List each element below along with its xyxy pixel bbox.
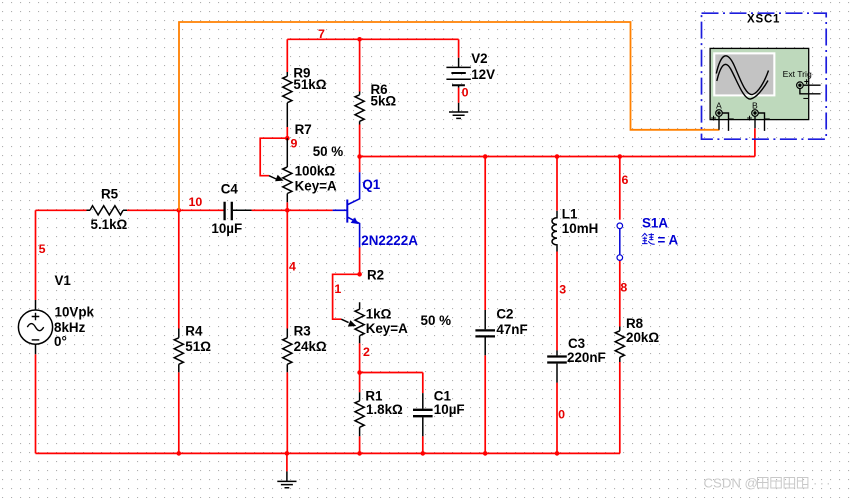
- svg-text:CSDN @: CSDN @: [704, 476, 758, 491]
- capacitor C1 leads: [422, 393, 424, 436]
- potentiometer R7 wiper arrow: [269, 176, 276, 179]
- svg-text:5: 5: [39, 242, 46, 256]
- svg-text:V1: V1: [55, 273, 72, 288]
- potentiometer R7 leads: [286, 138, 288, 202]
- wire R7 bottom to node10: [286, 202, 288, 210]
- svg-text:220nF: 220nF: [567, 350, 606, 365]
- svg-text:0°: 0°: [54, 334, 67, 349]
- svg-text:0: 0: [558, 408, 565, 422]
- svg-text:7: 7: [318, 27, 325, 41]
- node junction dot C2 top: [483, 154, 488, 159]
- oscilloscope A pin stubs: [719, 113, 729, 131]
- capacitor C2 plates: [475, 330, 495, 336]
- wire R9 top lead: [286, 39, 288, 72]
- svg-text:10mH: 10mH: [562, 221, 598, 236]
- wire R4 column bottom: [178, 372, 180, 453]
- node junction dot L1 top: [555, 154, 560, 159]
- svg-text:4: 4: [289, 260, 296, 274]
- ground symbol at bottom rail stem: [286, 471, 288, 481]
- wire R5 right to node10 to C4: [127, 209, 224, 211]
- node junction dot rail C3: [555, 451, 560, 456]
- wire Q1 collector red: [359, 157, 361, 173]
- svg-text:1kΩ: 1kΩ: [366, 307, 392, 322]
- transistor Q1 base lead: [333, 209, 348, 211]
- svg-text:10Vpk: 10Vpk: [55, 305, 95, 320]
- resistor R5 body: [90, 206, 123, 215]
- wire R2 wiper loop: [333, 274, 360, 319]
- capacitor C3 plates: [547, 357, 567, 363]
- transistor Q1 emitter lead: [348, 217, 360, 247]
- oscilloscope XSC1 Ext Trig terminal: [797, 82, 821, 94]
- resistor R6 body: [355, 95, 364, 122]
- wire R1 to C1 horizontal: [360, 372, 423, 374]
- svg-text:5.1kΩ: 5.1kΩ: [91, 217, 128, 232]
- label S1A key glyph (CJK jian): [642, 233, 655, 244]
- ground symbol at bottom rail bars: [277, 481, 296, 487]
- wire left rail vertical below V1: [35, 354, 37, 453]
- battery V2 top lead: [458, 58, 460, 68]
- svg-text:A: A: [716, 100, 722, 110]
- svg-text:−: −: [765, 114, 771, 125]
- svg-text:C4: C4: [221, 182, 239, 197]
- wire C2 column top: [484, 157, 486, 311]
- node junction dot node4: [285, 208, 290, 213]
- wire R6 bottom to node6: [359, 125, 361, 157]
- wire R2 bottom: [359, 343, 361, 372]
- svg-text:8: 8: [620, 281, 627, 295]
- wire node9 segment above R7: [286, 127, 288, 138]
- svg-text:2: 2: [363, 345, 370, 359]
- node junction dot node9: [285, 136, 290, 141]
- wire C1 top: [422, 373, 424, 394]
- svg-text:24kΩ: 24kΩ: [294, 339, 327, 354]
- node junction dot node7/R6: [357, 37, 362, 42]
- wire C4 right to node4 to Q1 base: [252, 209, 333, 211]
- source V1 circle: [18, 310, 52, 344]
- svg-text:V2: V2: [471, 51, 487, 66]
- svg-text:−: −: [729, 114, 735, 125]
- svg-text:C2: C2: [496, 307, 513, 322]
- oscilloscope XSC1 dashed selection box: [702, 13, 827, 139]
- oscilloscope XSC1 body: [710, 48, 809, 119]
- svg-text:R7: R7: [295, 122, 312, 137]
- svg-text:XSC1: XSC1: [747, 14, 780, 26]
- svg-text:+: +: [747, 113, 753, 124]
- battery V2 plates: [446, 67, 470, 79]
- svg-text:47nF: 47nF: [496, 322, 527, 337]
- svg-text:+: +: [711, 113, 717, 124]
- wire V2 mid stem red: [458, 88, 460, 103]
- svg-text:12V: 12V: [471, 67, 495, 82]
- node junction dot rail R1: [357, 451, 362, 456]
- capacitor C4 plates: [225, 202, 232, 220]
- svg-text:10µF: 10µF: [434, 402, 465, 417]
- wire R1 top: [359, 373, 361, 393]
- svg-text:Key=A: Key=A: [295, 179, 337, 194]
- battery V2 ground lead: [458, 103, 460, 112]
- svg-text:5kΩ: 5kΩ: [371, 94, 397, 109]
- node junction dot rail C1: [421, 451, 426, 456]
- oscilloscope XSC1 terminal A: [716, 110, 729, 131]
- svg-text:10µF: 10µF: [211, 221, 242, 236]
- resistor R8 leads: [619, 327, 621, 363]
- svg-text:Q1: Q1: [362, 177, 380, 192]
- wire S1A to R8 (node 8): [619, 261, 621, 327]
- resistor R4 body: [174, 338, 183, 365]
- wire R3 column top (node 4): [286, 210, 288, 328]
- svg-text:L1: L1: [562, 207, 578, 222]
- wire C2 column bottom: [484, 355, 486, 453]
- capacitor C3 leads: [556, 350, 558, 382]
- oscilloscope polarity marks: [711, 77, 810, 126]
- svg-text:20kΩ: 20kΩ: [626, 330, 659, 345]
- resistor R3 body: [283, 338, 292, 365]
- wire node6 horizontal: [360, 156, 755, 158]
- svg-text:10: 10: [189, 195, 203, 209]
- node junction dot S1A top: [618, 154, 623, 159]
- svg-text:100kΩ: 100kΩ: [295, 164, 336, 179]
- wire L1 top lead: [556, 157, 558, 211]
- svg-text:+: +: [804, 77, 810, 88]
- svg-text:9: 9: [291, 137, 298, 151]
- wire R7 wiper loop: [260, 138, 287, 176]
- resistor R8 body: [615, 331, 624, 358]
- svg-text:51Ω: 51Ω: [185, 339, 211, 354]
- svg-text:8kHz: 8kHz: [54, 320, 86, 335]
- svg-text:51kΩ: 51kΩ: [293, 77, 326, 92]
- oscilloscope XSC1 screen: [713, 52, 775, 96]
- source V1 minus sign: [32, 339, 40, 341]
- potentiometer R7 body: [283, 167, 292, 194]
- transistor Q1 emitter arrow: [351, 217, 359, 224]
- transistor Q1 bar: [346, 200, 348, 223]
- svg-text:Key=A: Key=A: [366, 321, 408, 336]
- svg-text:R8: R8: [626, 316, 644, 331]
- node junction dot R1 top: [357, 370, 362, 375]
- svg-text:···: ···: [813, 476, 833, 491]
- wire R8 bottom to rail: [619, 362, 621, 453]
- resistor R1 body: [355, 401, 364, 428]
- capacitor C4 lead: [233, 209, 252, 211]
- oscilloscope XSC1 terminal B: [752, 110, 765, 131]
- ground symbol at V2: [449, 112, 468, 118]
- node junction dot node10: [177, 208, 182, 213]
- wire ground stub red at rail: [286, 453, 288, 471]
- svg-text:1.8kΩ: 1.8kΩ: [366, 402, 403, 417]
- svg-text:R4: R4: [185, 324, 203, 339]
- capacitor C1 plates: [413, 410, 433, 416]
- resistor R9 leads: [286, 72, 288, 127]
- switch S1A body: [617, 223, 623, 260]
- oscilloscope XSC1 waveform trace B: [717, 64, 768, 99]
- svg-text:R5: R5: [101, 187, 119, 202]
- svg-text:2N2222A: 2N2222A: [361, 233, 418, 248]
- svg-text:B: B: [752, 100, 758, 110]
- svg-text:6: 6: [622, 173, 629, 187]
- wire bottom rail: [36, 452, 621, 454]
- source V1 sine squiggle: [27, 324, 43, 331]
- potentiometer R2 wiper arrow: [341, 319, 348, 322]
- resistor R5 leads: [87, 209, 128, 211]
- inductor L1 coil: [552, 211, 557, 252]
- potentiometer R2 leads: [359, 302, 361, 343]
- wire L1 to C3 (node 3): [556, 252, 558, 351]
- wire left rail top from R5: [36, 209, 87, 211]
- switch S1A link: [619, 229, 621, 255]
- resistor R4 leads: [178, 329, 180, 373]
- wire R3 column bottom: [286, 372, 288, 453]
- wire node7 top horizontal: [287, 38, 458, 40]
- svg-text:1: 1: [334, 282, 341, 296]
- wire V2 top drop: [458, 39, 460, 58]
- wire S1A top lead: [619, 157, 621, 220]
- svg-text:0: 0: [462, 86, 469, 100]
- switch S1A terminal circles: [617, 223, 623, 229]
- svg-text:50 %: 50 %: [421, 313, 452, 328]
- oscilloscope B pin stubs: [755, 113, 765, 131]
- svg-text:−: −: [803, 94, 809, 105]
- resistor R1 leads: [359, 392, 361, 436]
- resistor R9 body: [283, 76, 292, 103]
- svg-text:= A: = A: [658, 232, 679, 247]
- wire left rail vertical above V1: [35, 210, 37, 300]
- wire Q1 emitter red to R2: [359, 248, 361, 275]
- svg-text:R3: R3: [294, 324, 311, 339]
- wire C3 bottom (node 0): [556, 383, 558, 454]
- node junction dot rail C2: [483, 451, 488, 456]
- svg-text:S1A: S1A: [642, 216, 668, 231]
- battery V2 bottom stem: [458, 85, 460, 87]
- node junction dot rail R3/ground: [285, 451, 290, 456]
- svg-text:3: 3: [559, 283, 566, 297]
- watermark CJK glyph boxes: [758, 478, 808, 489]
- source V1 leads: [35, 300, 37, 354]
- oscilloscope XSC1 waveform trace A: [716, 56, 768, 95]
- node junction dot R2 top: [357, 272, 362, 277]
- node junction dot Q1 collector: [357, 154, 362, 159]
- wire R1 bottom: [359, 436, 361, 453]
- resistor R3 leads: [286, 329, 288, 373]
- source V1 plus sign: [32, 313, 40, 321]
- oscilloscope ext trig pin stubs: [800, 85, 821, 94]
- wire orange from node10 to scope A: [179, 22, 719, 210]
- wire R4 column top: [178, 210, 180, 328]
- node junction dot rail R4: [177, 451, 182, 456]
- wire R6 top lead from node7: [359, 39, 361, 91]
- resistor R6 leads: [359, 92, 361, 125]
- potentiometer R2 body: [355, 309, 364, 336]
- wire scope B drop: [754, 128, 756, 156]
- capacitor C2 leads: [484, 310, 486, 355]
- svg-text:R2: R2: [367, 268, 384, 283]
- transistor Q1 collector lead: [348, 172, 360, 204]
- wire C1 bottom: [422, 436, 424, 453]
- svg-text:C3: C3: [568, 336, 585, 351]
- svg-text:50 %: 50 %: [313, 144, 344, 159]
